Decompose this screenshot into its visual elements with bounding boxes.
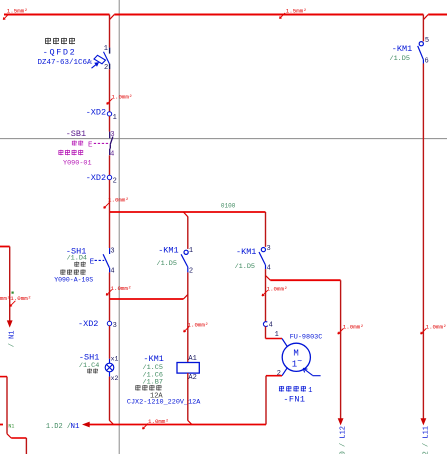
svg-text:-KM1: -KM1 xyxy=(158,246,178,256)
svg-text:1.0mm²: 1.0mm² xyxy=(267,286,288,293)
svg-text:1: 1 xyxy=(189,247,193,255)
svg-text:2: 2 xyxy=(189,268,193,276)
wire G: exit bottom xyxy=(25,438,27,454)
wire B: coil to bottom bus xyxy=(187,373,189,421)
svg-text:DZ47-63/1C6A: DZ47-63/1C6A xyxy=(38,59,93,67)
svg-text:1: 1 xyxy=(104,45,108,53)
wire A: XD2:1 to SB1 xyxy=(109,116,111,132)
svg-text:3: 3 xyxy=(113,322,117,330)
svg-text:3: 3 xyxy=(110,247,114,255)
svg-text:2: 2 xyxy=(277,370,281,378)
wire G: lower-left corridor from edge xyxy=(0,376,7,378)
svg-text:1.0mm²: 1.0mm² xyxy=(426,324,447,331)
svg-text:1.D2 /: 1.D2 / xyxy=(46,423,71,431)
svg-text:/1.D4: /1.D4 xyxy=(67,255,87,263)
svg-text:Y090-01: Y090-01 xyxy=(63,159,92,167)
svg-text:4: 4 xyxy=(269,322,273,330)
wire marker on wire D xyxy=(338,329,344,335)
coil KM1 rectangle xyxy=(177,363,199,374)
contact KM1 NO auxiliary 3/4 xyxy=(259,248,266,270)
svg-text:4: 4 xyxy=(110,268,114,276)
svg-text:x1: x1 xyxy=(111,355,119,362)
terminal XD2:3 circle xyxy=(107,321,111,325)
contact KM1 NO auxiliary 1/2 xyxy=(181,250,188,272)
svg-text:FU-9803C: FU-9803C xyxy=(290,334,323,342)
breaker QFD2 label 控制空开 xyxy=(45,38,75,45)
pushbutton SB1 NC contact xyxy=(110,132,113,156)
wire: top bus right segment xyxy=(428,14,447,16)
wire A: junction down to start button SH1 xyxy=(109,212,111,248)
svg-text:A1: A1 xyxy=(188,355,196,363)
wire marker on bottom bus xyxy=(143,424,149,430)
svg-text:Y090-A-10S: Y090-A-10S xyxy=(54,276,93,283)
svg-text:4: 4 xyxy=(267,264,271,272)
svg-text:-XD2: -XD2 xyxy=(86,107,106,117)
wire marker on wire B xyxy=(184,327,190,333)
svg-text:1.0mm²: 1.0mm² xyxy=(112,94,133,101)
wire C: from H1 corner down to contact KM1 3/4 xyxy=(265,212,267,247)
wire: motor pin2 down to bottom bus xyxy=(265,376,267,425)
grid horizontal divider line xyxy=(0,138,447,140)
svg-text:-QFD2: -QFD2 xyxy=(43,48,77,58)
svg-text:/1.D5: /1.D5 xyxy=(235,263,255,271)
wire: jog diagonal wire A to bottom bus xyxy=(110,420,114,424)
wire B: from H1 jog down to contactor contact KM1 1/2 xyxy=(187,217,189,249)
wire G: vertical xyxy=(6,377,8,434)
svg-text:-KM1: -KM1 xyxy=(143,354,163,364)
svg-text:-KM1: -KM1 xyxy=(392,44,412,54)
wire C: connector to motor pin 1 corner xyxy=(265,326,267,338)
wire G: horizontal xyxy=(11,437,26,439)
wire: horizontal to motor pin 1 xyxy=(266,338,283,340)
pushbutton SB1 color label 红色 xyxy=(72,140,83,145)
motor FN1 circle xyxy=(282,343,310,371)
wire E: from top bus jog down to contact KM1 5/6 xyxy=(422,15,424,42)
svg-text:N1: N1 xyxy=(8,424,14,430)
lamp SH1 symbol xyxy=(105,359,114,377)
motor FN1 name label 柜内风扇1 xyxy=(279,386,306,392)
wire A: SB1 to terminal XD2:2 xyxy=(109,155,111,175)
wire: top bus middle segment xyxy=(114,14,423,16)
contact KM1 NO main 5/6 xyxy=(418,42,424,64)
svg-text:1.0mm²: 1.0mm² xyxy=(343,324,364,331)
bottom bus arrow pointing left xyxy=(82,422,90,428)
wire H1: horizontal branch at node 0100 xyxy=(110,211,266,213)
wire: jog diagonal at node E top xyxy=(424,15,429,20)
breaker QFD2 symbol xyxy=(89,48,110,70)
wire D arrow to L12 xyxy=(338,418,344,425)
svg-text:2: 2 xyxy=(113,178,117,186)
wire F: vertical down to N1 arrow xyxy=(9,247,11,322)
svg-text:1.0mm²: 1.0mm² xyxy=(108,197,129,204)
coil KM1 function label 电源启动 xyxy=(135,385,161,391)
svg-text:N1: N1 xyxy=(71,423,81,431)
wire C: contact to fan connector xyxy=(265,269,267,321)
wire A: SH1 to terminal XD2:3 xyxy=(109,272,111,321)
start button SH1 actuator dashed link xyxy=(95,259,105,261)
wire H3: branch to L12 feeder xyxy=(270,279,340,281)
wire F: neutral stub from left edge xyxy=(0,246,10,248)
bottom bus left stub at edge xyxy=(0,424,3,426)
green tick on wire F xyxy=(12,292,14,294)
svg-text:5: 5 xyxy=(425,37,429,45)
svg-text:2: 2 xyxy=(104,64,108,72)
svg-text:/1.D5: /1.D5 xyxy=(390,55,410,63)
svg-text:1.0mm²: 1.0mm² xyxy=(188,322,209,329)
wire marker on wire F xyxy=(10,301,16,307)
svg-text:1: 1 xyxy=(308,387,312,395)
svg-text:3: 3 xyxy=(267,245,271,253)
lamp SH1 color label 白色 xyxy=(87,369,98,374)
svg-text:1: 1 xyxy=(275,331,279,339)
svg-text:1.0mm²: 1.0mm² xyxy=(10,295,31,302)
wire A: breaker to terminal XD2:1 xyxy=(109,69,111,112)
svg-text:A2: A2 xyxy=(188,374,196,382)
wire marker top left xyxy=(3,14,9,20)
start button SH1 function label 电源启动 xyxy=(60,269,85,274)
svg-text:4: 4 xyxy=(110,150,114,158)
svg-text:1.5mm²: 1.5mm² xyxy=(7,7,28,14)
svg-text:E: E xyxy=(90,258,95,266)
wire: jog diagonal wire C to H3 xyxy=(266,276,271,281)
svg-text:-XD2: -XD2 xyxy=(78,319,98,329)
wire D: L12 feeder vertical xyxy=(340,280,342,419)
pushbutton SB1 actuator dashed link xyxy=(94,142,110,144)
svg-text:x2: x2 xyxy=(111,375,119,382)
wire E: contact down to L11 arrow xyxy=(422,64,424,420)
wire marker top right xyxy=(280,13,286,19)
wire: top bus left segment xyxy=(4,14,110,16)
svg-text:6: 6 xyxy=(425,58,429,66)
wire: jog diagonal H2 to wire B xyxy=(183,294,188,299)
wire marker on wire E xyxy=(421,329,427,335)
wire G: jog diagonal xyxy=(7,434,11,438)
terminal XD2:1 circle xyxy=(107,112,111,116)
wire A: XD2:3 to lamp SH1 xyxy=(109,326,111,359)
wire marker on wire C xyxy=(262,290,268,296)
wire E arrow to L11 xyxy=(421,418,427,425)
svg-text:/1.B7: /1.B7 xyxy=(143,379,163,387)
svg-text:1.0mm²: 1.0mm² xyxy=(111,285,132,292)
wire A: XD2:2 to node junction xyxy=(109,180,111,212)
wire marker on wire A above junction xyxy=(104,203,110,209)
svg-text:/ N1: / N1 xyxy=(8,330,16,347)
svg-text:1.0mm²: 1.0mm² xyxy=(0,295,10,302)
pushbutton SB1 function label 电源停止 xyxy=(58,150,83,155)
terminal XD2:2 circle xyxy=(107,175,111,179)
svg-text:1.D2 / L11: 1.D2 / L11 xyxy=(422,426,430,454)
wire A: lamp to bottom bus xyxy=(109,377,111,421)
start button SH1 color label 白色 xyxy=(74,262,85,267)
svg-text:1.D0 / L12: 1.D0 / L12 xyxy=(340,426,348,454)
svg-text:-KM1: -KM1 xyxy=(236,247,256,257)
wire: jog diagonal from H1 down to wire B xyxy=(183,212,188,217)
wire marker on wire A below breaker xyxy=(107,99,113,105)
svg-text:-SB1: -SB1 xyxy=(66,129,86,139)
svg-text:1.0mm²: 1.0mm² xyxy=(148,418,169,425)
motor FN1 PE arrow xyxy=(303,368,320,375)
wire B: contact to coil KM1 xyxy=(187,272,189,362)
fan connector pin 4 arc xyxy=(263,322,267,327)
svg-text:E: E xyxy=(88,141,93,149)
svg-text:1: 1 xyxy=(113,114,117,122)
svg-text:/1.D5: /1.D5 xyxy=(157,260,177,268)
svg-text:-XD2: -XD2 xyxy=(86,173,106,183)
bottom bus wire xyxy=(90,424,267,426)
svg-text:-FN1: -FN1 xyxy=(283,394,305,404)
svg-text:/1.C4: /1.C4 xyxy=(79,362,99,370)
wire: jog diagonal wire B to bottom bus xyxy=(188,420,192,424)
wire F arrow to N1 xyxy=(7,320,13,327)
wire A: vertical from top bus to breaker xyxy=(109,15,111,48)
wire marker on wire A above XD2:3 xyxy=(106,290,112,296)
wire: motor pin2 horizontal xyxy=(266,375,282,377)
wire: jog diagonal at node A top xyxy=(110,15,115,20)
svg-text:CJX2-1210_220V_12A: CJX2-1210_220V_12A xyxy=(127,399,201,407)
svg-text:1.5mm²: 1.5mm² xyxy=(286,7,307,14)
motor FN1 lead pin1 xyxy=(282,339,288,348)
svg-text:0100: 0100 xyxy=(221,202,236,209)
grid vertical divider line xyxy=(118,0,120,454)
start button SH1 NO contact xyxy=(103,248,110,272)
svg-text:~: ~ xyxy=(297,358,302,367)
wire H2: seal-in branch between wire A and wire B xyxy=(110,298,184,300)
motor FN1 lead pin2 xyxy=(282,367,288,375)
